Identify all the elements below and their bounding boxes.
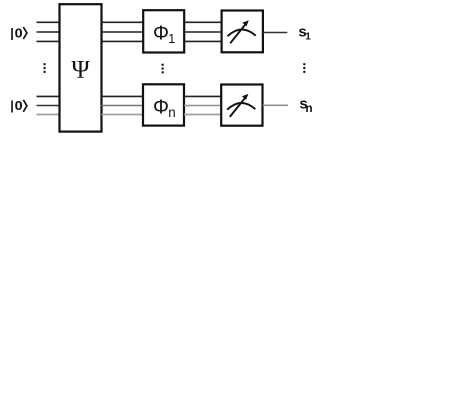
svg-text:1: 1: [168, 32, 175, 46]
label Phi_n: [153, 97, 176, 120]
classical output wire s1: [263, 32, 287, 34]
svg-text:|: |: [10, 25, 14, 40]
ket label |0> qubit group n: [10, 98, 27, 113]
svg-text:n: n: [305, 101, 312, 115]
gate box Phi_n: [143, 84, 184, 125]
svg-text:|: |: [10, 98, 14, 113]
wire q1 line1 into Psi: [37, 21, 61, 23]
svg-text:Ψ: Ψ: [71, 57, 90, 84]
wire busn Phin to meter line2 (faded): [184, 105, 221, 107]
state-preparation box U Psi: [60, 4, 102, 131]
wire busn Psi to Phin line1: [102, 95, 144, 97]
meter M1 needle arrowhead: [242, 20, 249, 26]
wire busn Psi to Phin line3 (faded): [102, 114, 144, 116]
wire bus1 Phi1 to meter line3: [184, 40, 222, 42]
vertical ellipsis middle between Phi gates: [162, 64, 164, 74]
meter Mn needle arrowhead: [242, 94, 249, 100]
svg-text:n: n: [168, 105, 175, 120]
vertical ellipsis right between outputs: [303, 63, 305, 73]
measurement box M1: [222, 11, 263, 53]
label Phi_1: [153, 23, 175, 46]
classical output wire sn (faded): [263, 104, 288, 106]
wire qn line3 into Psi (faded): [37, 114, 61, 116]
meter M1 needle: [230, 24, 246, 43]
wire q1 line3 into Psi: [37, 40, 61, 42]
meter M1 arc: [228, 30, 256, 37]
wire bus1 Psi to Phi1 line2: [102, 31, 144, 33]
wire busn Phin to meter line1: [184, 95, 221, 97]
output label s_1: [298, 24, 311, 43]
wire qn line1 into Psi: [37, 95, 61, 97]
wire bus1 Psi to Phi1 line1: [102, 21, 144, 23]
output label s_n: [299, 96, 312, 115]
wire qn line2 into Psi: [37, 105, 61, 107]
wire q1 line2 into Psi: [37, 31, 61, 33]
gate box Phi_1: [143, 10, 184, 52]
wire bus1 Phi1 to meter line2: [184, 31, 222, 33]
svg-text:Φ: Φ: [153, 23, 169, 45]
wire busn Phin to meter line3 (faded): [184, 114, 221, 116]
ket label |0> qubit group 1: [10, 25, 27, 40]
measurement box Mn: [221, 85, 262, 126]
svg-text:0: 0: [15, 98, 23, 113]
svg-text:0: 0: [15, 25, 23, 40]
wire bus1 Psi to Phi1 line3: [102, 40, 144, 42]
svg-text:1: 1: [305, 31, 311, 42]
svg-text:Φ: Φ: [153, 97, 169, 119]
wire busn Psi to Phin line2: [102, 105, 144, 107]
vertical ellipsis left between qubit groups: [44, 63, 46, 73]
meter Mn needle: [230, 98, 246, 117]
meter Mn arc: [227, 103, 255, 110]
wire bus1 Phi1 to meter line1: [184, 21, 222, 23]
